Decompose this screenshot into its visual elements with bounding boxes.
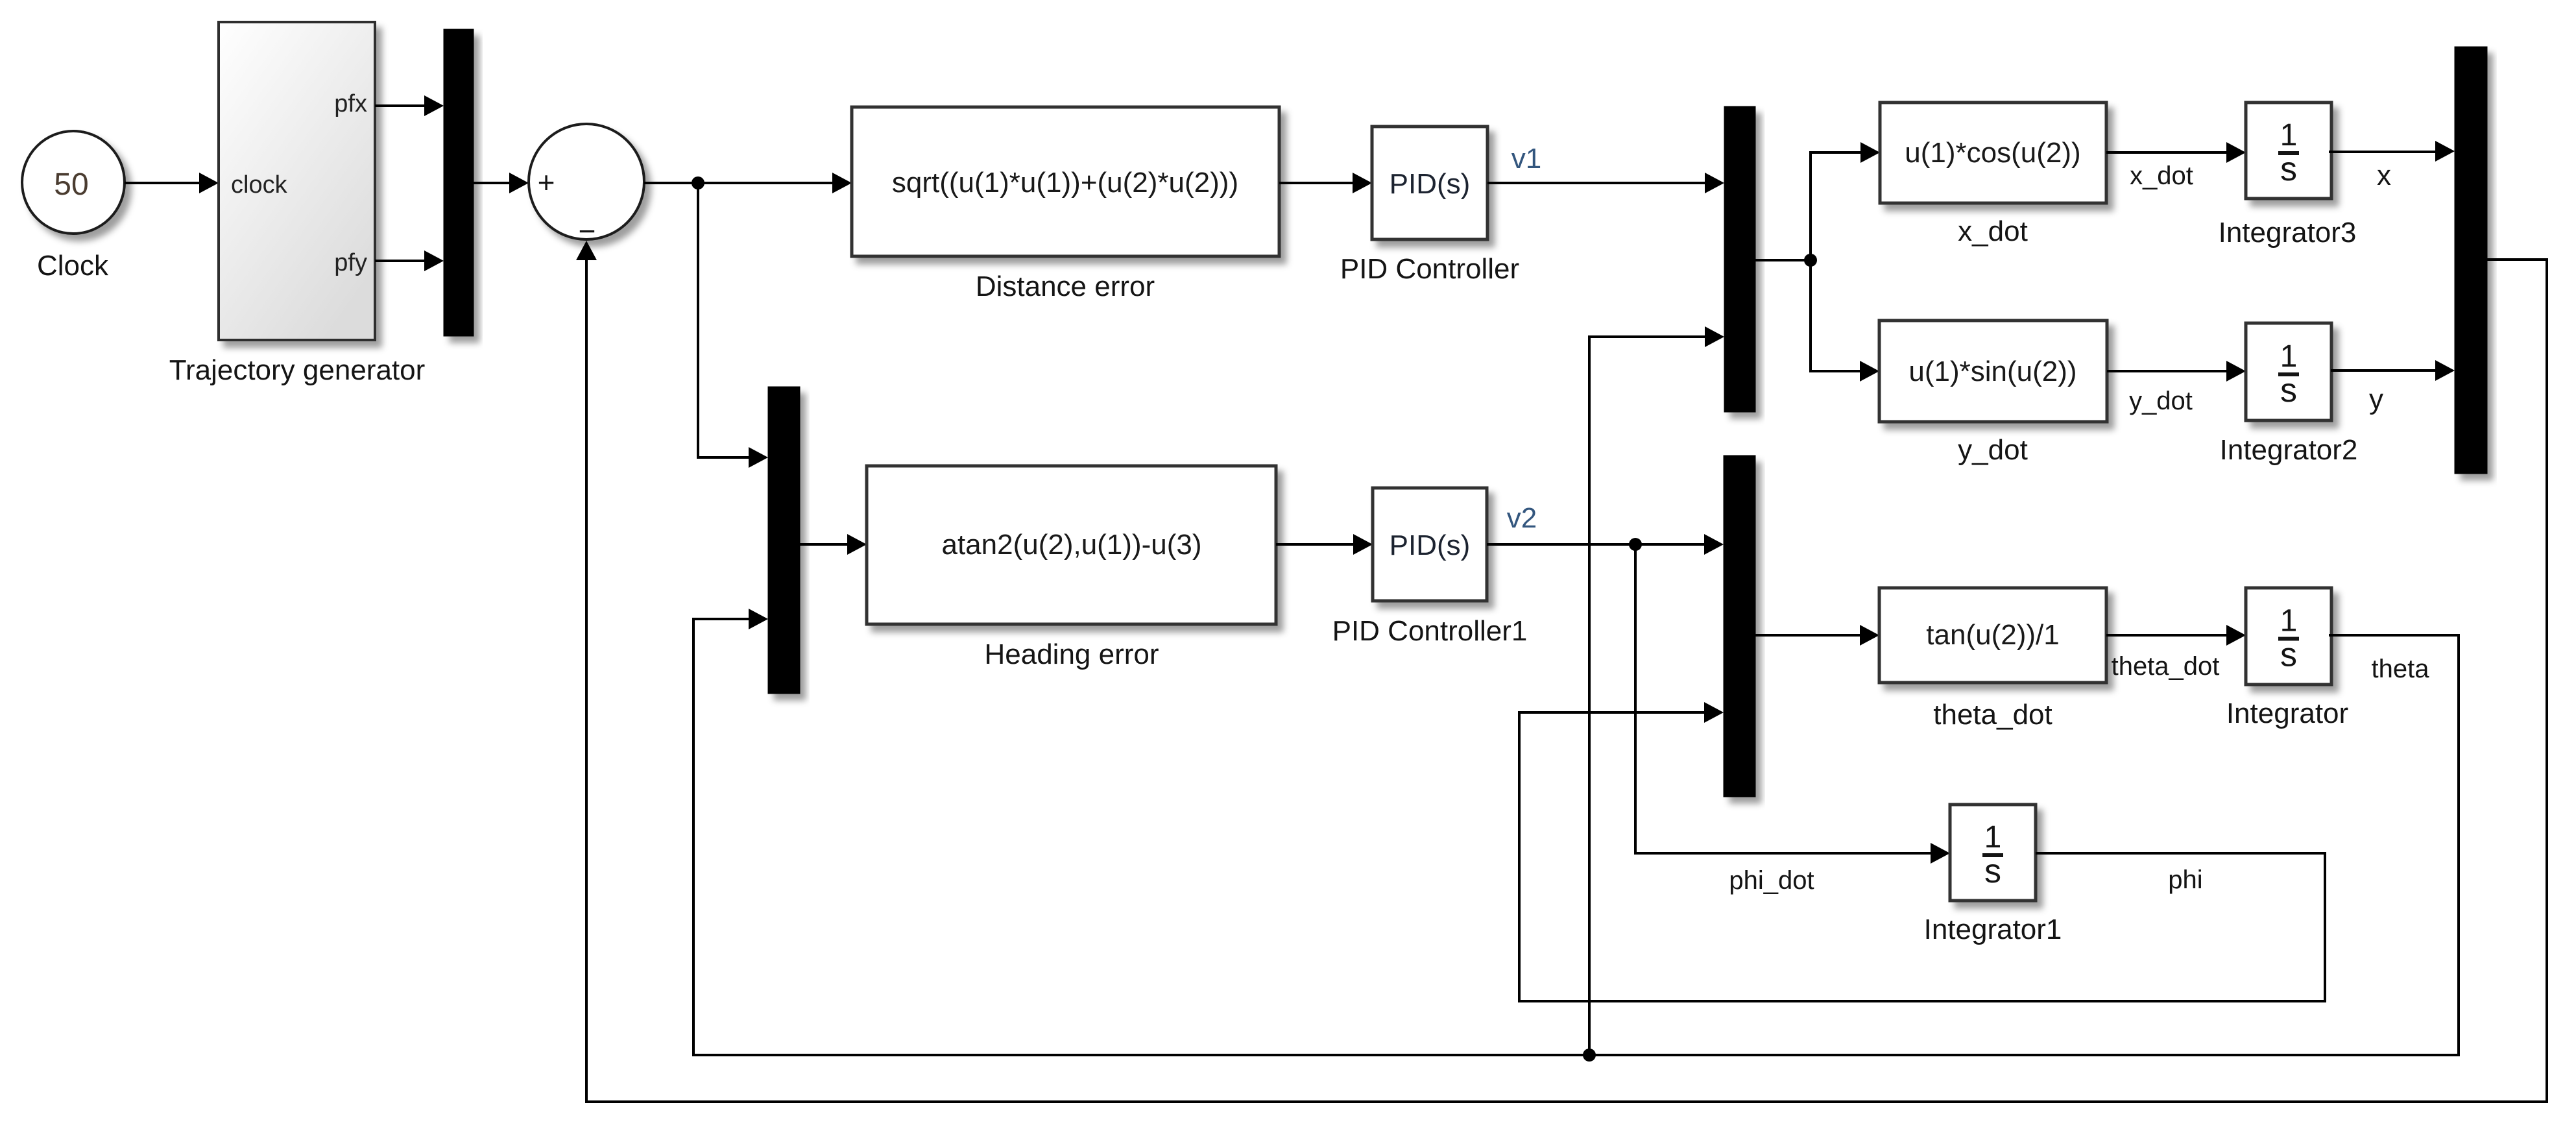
wire Heading error to PID Controller1	[1276, 534, 1373, 555]
wire theta_dot to Integrator	[2106, 625, 2246, 646]
wire branch down to heading mux Mux1 input 1	[698, 183, 768, 468]
svg-text:PID Controller1: PID Controller1	[1332, 615, 1528, 647]
mux Mux5 (v2, phi)	[1724, 455, 1755, 797]
wire phi: Integrator1 right, down, left, up into Mux5 input 2	[1519, 702, 2325, 1001]
clock source block Clock (circle, value 50)	[22, 131, 125, 234]
net label theta_dot	[2112, 652, 2220, 681]
label PID Controller1	[1332, 615, 1528, 647]
wire pfy output to mux Mux2	[375, 250, 444, 271]
net label x_dot	[2130, 162, 2193, 190]
net label v2	[1507, 502, 1537, 534]
label Distance error	[976, 271, 1155, 302]
svg-text:x_dot: x_dot	[1958, 215, 2028, 247]
svg-text:1: 1	[1984, 820, 2002, 855]
wire pfx output to mux Mux2	[375, 95, 444, 116]
function block y_dot: u(1)*sin(u(2))	[1879, 321, 2107, 422]
svg-text:Integrator: Integrator	[2226, 698, 2348, 729]
svg-text:pfx: pfx	[334, 90, 367, 117]
wire Mux1 to Heading error	[800, 534, 867, 555]
integrator block Integrator2 (1/s)	[2246, 323, 2331, 420]
svg-text:phi_dot: phi_dot	[1729, 866, 1814, 895]
net label y_dot	[2129, 387, 2193, 415]
wire theta feedback: right, down, along bottom, up to Mux1 input 2	[693, 609, 2459, 1055]
svg-text:phi: phi	[2168, 866, 2202, 894]
net label v1	[1511, 143, 1541, 175]
mux Mux2 (reference trajectory vector)	[444, 29, 474, 336]
svg-text:theta: theta	[2372, 655, 2430, 683]
wire Mux3 output branching to x_dot and y_dot	[1755, 259, 1811, 261]
label theta_dot	[1933, 699, 2052, 731]
svg-text:1: 1	[2280, 604, 2298, 638]
label Integrator	[2226, 698, 2348, 729]
net label theta	[2372, 655, 2430, 683]
node theta branch	[1583, 1049, 1596, 1062]
net label phi	[2168, 866, 2202, 894]
wire Sum output to Distance error (with branch node)	[644, 173, 852, 193]
integrator block Integrator1 (1/s)	[1950, 805, 2036, 901]
svg-text:Integrator2: Integrator2	[2220, 434, 2358, 466]
svg-text:PID(s): PID(s)	[1390, 168, 1471, 200]
wire Distance error to PID Controller	[1279, 173, 1372, 193]
wire Mux2 to Sum	[474, 173, 529, 193]
svg-text:Heading error: Heading error	[984, 638, 1159, 670]
wire v2: PID Controller1 to mux Mux5 (with branch node)	[1487, 534, 1724, 555]
label Heading error	[984, 638, 1159, 670]
controller block PID Controller: PID(s)	[1372, 127, 1487, 239]
svg-text:y: y	[2369, 383, 2383, 415]
wire feedback: Mux4 output right, down, along bottom, up into Sum minus	[576, 241, 2547, 1102]
svg-text:PID Controller: PID Controller	[1340, 253, 1519, 285]
wire branch up to x_dot	[1811, 142, 1880, 260]
wire phi_dot: branch down then right to Integrator1	[1635, 544, 1950, 864]
wire Clock to Trajectory generator clock input	[125, 173, 219, 193]
label Integrator3	[2219, 217, 2357, 249]
svg-text:theta_dot: theta_dot	[1933, 699, 2052, 731]
svg-text:tan(u(2))/1: tan(u(2))/1	[1926, 619, 2059, 651]
svg-text:clock: clock	[231, 171, 288, 199]
node branch	[1804, 254, 1817, 267]
svg-text:s: s	[2280, 637, 2297, 674]
function block Heading error: atan2(u(2),u(1))-u(3)	[867, 466, 1276, 624]
svg-text:PID(s): PID(s)	[1390, 529, 1471, 561]
label x_dot	[1958, 215, 2028, 247]
svg-text:s: s	[2280, 372, 2297, 409]
label y_dot	[1958, 434, 2028, 466]
svg-text:x_dot: x_dot	[2130, 162, 2193, 190]
wire y_dot to Integrator2	[2107, 361, 2246, 382]
svg-text:y_dot: y_dot	[1958, 434, 2028, 466]
label Integrator2	[2220, 434, 2358, 466]
controller block PID Controller1: PID(s)	[1373, 488, 1487, 601]
wire y: Integrator2 to mux Mux4	[2331, 360, 2455, 381]
svg-text:+: +	[538, 165, 555, 199]
svg-text:u(1)*sin(u(2)): u(1)*sin(u(2))	[1908, 356, 2076, 387]
integrator block Integrator3 (1/s)	[2246, 103, 2331, 199]
integrator block Integrator (1/s)	[2246, 588, 2331, 685]
subsystem block Trajectory generator	[219, 22, 375, 340]
mux Mux1 (error vector, theta)	[768, 387, 800, 694]
label Trajectory generator	[169, 354, 426, 386]
svg-text:Integrator1: Integrator1	[1924, 914, 2062, 945]
function block Distance error: sqrt((u(1)*u(1))+(u(2)*u(2)))	[852, 107, 1279, 256]
svg-text:s: s	[1984, 853, 2001, 890]
svg-text:atan2(u(2),u(1))-u(3): atan2(u(2),u(1))-u(3)	[941, 529, 1201, 561]
svg-text:50: 50	[54, 167, 88, 202]
svg-text:v1: v1	[1511, 143, 1541, 175]
sum junction Sum (+ -)	[529, 124, 644, 248]
svg-text:sqrt((u(1)*u(1))+(u(2)*u(2))): sqrt((u(1)*u(1))+(u(2)*u(2)))	[892, 167, 1238, 199]
node branch of error vector	[692, 176, 704, 189]
svg-text:theta_dot: theta_dot	[2112, 652, 2220, 681]
svg-text:Integrator3: Integrator3	[2219, 217, 2357, 249]
wire theta branch up to mux Mux3 input 2	[1589, 326, 1724, 1055]
label Clock	[37, 250, 109, 282]
svg-text:1: 1	[2280, 118, 2298, 152]
mux Mux3 (v1, theta)	[1724, 106, 1755, 412]
svg-text:Distance error: Distance error	[976, 271, 1155, 302]
svg-text:Clock: Clock	[37, 250, 109, 282]
svg-text:u(1)*cos(u(2)): u(1)*cos(u(2))	[1905, 137, 2080, 169]
wire Mux5 to theta_dot block	[1755, 625, 1879, 646]
net label phi_dot	[1729, 866, 1814, 895]
wire x_dot to Integrator3	[2106, 142, 2246, 163]
svg-text:pfy: pfy	[334, 249, 367, 276]
function block theta_dot: tan(u(2))/1	[1879, 588, 2106, 683]
svg-text:Trajectory generator: Trajectory generator	[169, 354, 426, 386]
svg-text:y_dot: y_dot	[2129, 387, 2193, 415]
wire x: Integrator3 to mux Mux4	[2329, 141, 2455, 162]
net label y	[2369, 383, 2383, 415]
svg-text:v2: v2	[1507, 502, 1537, 534]
wire v1: PID Controller to mux Mux3	[1487, 173, 1724, 193]
function block x_dot: u(1)*cos(u(2))	[1880, 103, 2106, 203]
svg-text:1: 1	[2280, 339, 2298, 374]
svg-text:s: s	[2280, 151, 2297, 188]
label PID Controller	[1340, 253, 1519, 285]
mux Mux4 (x, y feedback vector)	[2455, 47, 2487, 474]
label Integrator1	[1924, 914, 2062, 945]
net label x	[2377, 160, 2391, 191]
svg-text:x: x	[2377, 160, 2391, 191]
wire branch down to y_dot	[1811, 260, 1879, 382]
node v2 branch to phi_dot	[1629, 538, 1642, 551]
